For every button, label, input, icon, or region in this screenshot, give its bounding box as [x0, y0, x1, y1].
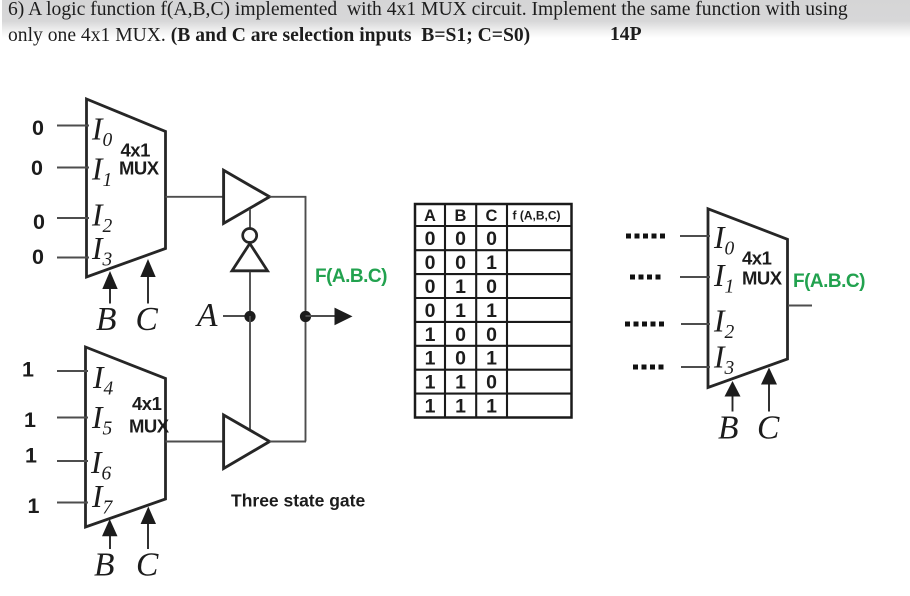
truth table grid — [415, 204, 572, 418]
select arrow B of U1 — [102, 271, 117, 304]
svg-text:0: 0 — [33, 210, 45, 234]
svg-text:0: 0 — [425, 276, 436, 298]
svg-text:MUX: MUX — [129, 416, 170, 437]
svg-text:B: B — [94, 547, 114, 584]
svg-text:1: 1 — [455, 276, 466, 298]
svg-text:A: A — [424, 207, 436, 225]
svg-text:1: 1 — [425, 324, 436, 346]
three-state buffer G2 (bottom) — [224, 415, 270, 469]
table header A B C f(A,B,C) — [424, 207, 498, 225]
dotted value on I0 of U3 — [626, 234, 665, 239]
svg-text:f (A,B,C): f (A,B,C) — [513, 209, 561, 223]
node junction on A/enable wire — [244, 311, 255, 322]
svg-text:0: 0 — [32, 116, 44, 140]
output arrowhead — [335, 308, 353, 326]
dotted value on I2 of U3 — [625, 322, 664, 327]
enable inverter bubble — [243, 229, 257, 243]
wire input I2 of U1 — [57, 217, 89, 219]
svg-text:Three state gate: Three state gate — [231, 491, 365, 511]
MUX U2 body (bottom 4x1 MUX) — [86, 347, 166, 527]
svg-text:0: 0 — [455, 348, 466, 370]
svg-text:MUX: MUX — [119, 158, 160, 179]
svg-text:MUX: MUX — [742, 268, 783, 289]
svg-text:C: C — [757, 410, 780, 447]
three-state buffer G1 (top) — [224, 170, 270, 223]
svg-text:B: B — [96, 301, 116, 338]
select arrow C of U3 — [761, 368, 777, 412]
svg-text:4x1: 4x1 — [132, 393, 162, 414]
svg-text:F(A.B.C): F(A.B.C) — [793, 271, 865, 292]
table rows values — [425, 228, 498, 417]
svg-text:1: 1 — [455, 396, 466, 418]
wire input I7 of U2 — [57, 502, 88, 504]
svg-text:4x1: 4x1 — [742, 248, 772, 269]
svg-text:1: 1 — [25, 444, 37, 468]
svg-text:1: 1 — [24, 408, 36, 432]
wire input I1 of U3 — [680, 276, 710, 278]
select arrow B of U2 — [102, 519, 118, 549]
svg-text:0: 0 — [31, 156, 43, 180]
svg-text:1: 1 — [425, 372, 436, 394]
header gradient band — [2, 0, 910, 52]
wire input I3 of U1 — [57, 257, 89, 259]
wire input I3 of U3 — [681, 366, 710, 368]
svg-text:B: B — [455, 207, 467, 225]
svg-text:F(A.B.C): F(A.B.C) — [315, 266, 387, 287]
wire U1 output to buffer — [166, 196, 225, 198]
svg-text:0: 0 — [32, 245, 44, 269]
wire input I6 of U2 — [57, 460, 88, 462]
wire U3 output stub — [788, 305, 812, 307]
svg-text:C: C — [486, 207, 498, 225]
wire A to node — [223, 315, 250, 317]
svg-text:C: C — [136, 301, 159, 338]
wire node A down to G2 enable — [249, 316, 251, 430]
wire G2 output — [270, 441, 307, 443]
svg-text:1: 1 — [455, 300, 466, 322]
dotted value on I1 of U3 — [630, 275, 661, 280]
svg-text:1: 1 — [486, 252, 497, 274]
svg-text:A: A — [195, 297, 218, 334]
svg-text:0: 0 — [486, 372, 497, 394]
MUX U1 body (top 4x1 MUX) — [87, 99, 166, 277]
svg-text:1: 1 — [425, 396, 436, 418]
wire input I0 of U1 — [57, 125, 89, 127]
svg-text:1: 1 — [28, 494, 40, 518]
svg-text:1: 1 — [486, 396, 497, 418]
svg-text:1: 1 — [455, 372, 466, 394]
wire input I2 of U3 — [681, 323, 710, 325]
svg-text:0: 0 — [455, 252, 466, 274]
wire U2 output to buffer — [166, 441, 225, 443]
wire output to arrow — [306, 315, 338, 317]
enable inverter triangle — [232, 244, 268, 271]
svg-text:0: 0 — [486, 324, 497, 346]
wire G1 output — [270, 196, 307, 198]
MUX U3 body (right 4x1 MUX) — [708, 209, 788, 388]
select arrow C of U2 — [141, 507, 156, 550]
svg-text:0: 0 — [425, 228, 436, 250]
svg-text:B: B — [718, 410, 738, 447]
wire inverter to node A — [249, 272, 251, 313]
svg-text:0: 0 — [425, 300, 436, 322]
node junction on output bus — [300, 311, 311, 322]
svg-text:0: 0 — [425, 252, 436, 274]
svg-text:1: 1 — [486, 348, 497, 370]
wire G1 enable stub — [249, 209, 251, 229]
dotted value on I3 of U3 — [633, 365, 664, 370]
svg-text:C: C — [136, 547, 159, 584]
wire input I5 of U2 — [57, 417, 88, 419]
select arrow B of U3 — [725, 381, 741, 412]
svg-text:1: 1 — [425, 348, 436, 370]
wire output bus vertical — [305, 197, 307, 442]
svg-text:0: 0 — [486, 276, 497, 298]
svg-text:0: 0 — [486, 228, 497, 250]
header question text — [8, 0, 908, 50]
wire input I4 of U2 — [57, 370, 88, 372]
svg-text:0: 0 — [455, 324, 466, 346]
svg-text:0: 0 — [455, 228, 466, 250]
wire input I0 of U3 — [680, 235, 710, 237]
svg-text:1: 1 — [486, 300, 497, 322]
select arrow C of U1 — [140, 259, 155, 304]
svg-text:1: 1 — [22, 358, 34, 382]
wire input I1 of U1 — [57, 167, 89, 169]
